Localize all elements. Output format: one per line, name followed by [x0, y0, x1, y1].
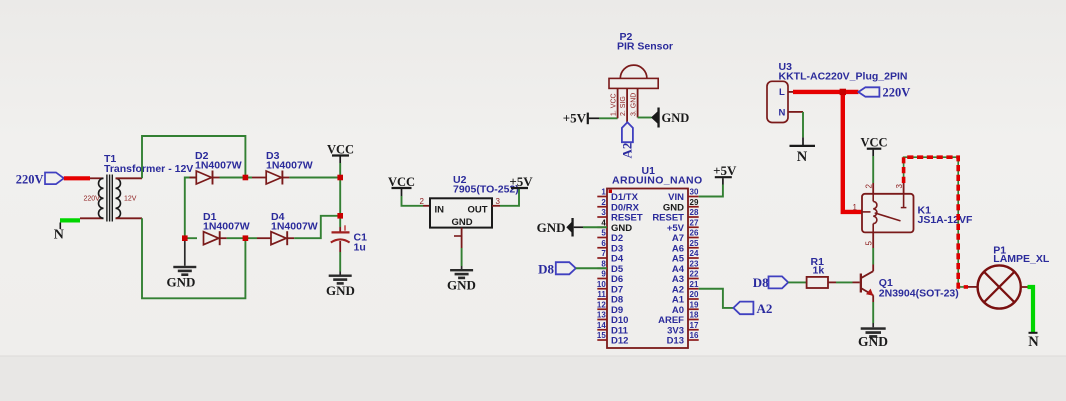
svg-text:VCC: VCC	[860, 136, 887, 150]
svg-text:27: 27	[690, 218, 699, 227]
pin 29 GND	[688, 206, 699, 208]
svg-text:N: N	[797, 149, 808, 165]
node N (left)	[54, 220, 80, 242]
svg-text:16: 16	[690, 331, 699, 340]
svg-text:25: 25	[690, 239, 699, 248]
svg-text:JS1A-12VF: JS1A-12VF	[918, 214, 973, 226]
svg-text:IN: IN	[435, 205, 445, 216]
svg-text:5: 5	[601, 229, 606, 238]
svg-text:GND: GND	[451, 217, 472, 228]
wire GND port to Arduino	[583, 226, 607, 228]
connector U3 KKTL-AC220V_Plug_2PIN	[767, 61, 907, 123]
port 220V (left)	[16, 172, 64, 186]
diode D2 1N4007W	[190, 150, 242, 185]
svg-text:11: 11	[597, 290, 606, 299]
junction node dots (bridge)	[243, 175, 249, 181]
svg-text:L: L	[779, 87, 785, 98]
pin 2 label (K1)	[865, 184, 874, 189]
wire U2 GND pin down	[461, 228, 463, 248]
pin 18 AREF	[688, 319, 699, 321]
pin 22 A3	[688, 278, 699, 280]
wire D1 cathode to junction	[227, 237, 257, 239]
capacitor C1 1u	[331, 225, 367, 253]
svg-text:1N4007W: 1N4007W	[271, 221, 318, 233]
wire lamp right pin	[1021, 286, 1028, 288]
wire relay pin3 stub	[903, 183, 905, 194]
svg-text:10: 10	[597, 280, 606, 289]
pin 25 A6	[688, 247, 699, 249]
svg-text:2: 2	[865, 184, 874, 189]
diode D3 1N4007W	[252, 150, 313, 185]
svg-text:GND: GND	[858, 334, 888, 349]
wire 220V thick red to transformer	[64, 176, 90, 180]
svg-text:A2: A2	[620, 143, 635, 159]
pin 30 VIN	[688, 196, 699, 198]
svg-text:+5V: +5V	[563, 111, 587, 126]
port 220V (right)	[858, 85, 910, 99]
svg-text:2: 2	[420, 197, 425, 206]
svg-text:GND: GND	[537, 220, 566, 235]
svg-text:ARDUINO_NANO: ARDUINO_NANO	[612, 175, 703, 187]
wire D8 port to Arduino	[576, 267, 607, 269]
svg-text:13: 13	[597, 311, 606, 320]
pin 14 D11	[597, 329, 607, 331]
svg-text:29: 29	[690, 198, 699, 207]
wire dashed highlighted net relay pin3 to lamp	[904, 157, 968, 287]
junction node (220V)	[840, 89, 846, 95]
pin 7 D4	[597, 257, 607, 259]
svg-text:N: N	[1028, 334, 1039, 350]
wire PIR pin3 to GND port	[638, 117, 652, 119]
PIR sensor P2	[609, 31, 673, 123]
wire pin stub T1 primary top	[90, 177, 104, 179]
svg-text:220V: 220V	[16, 172, 44, 186]
wire D2 cathode to junction	[220, 177, 253, 179]
pin 1 D1/TX	[597, 196, 607, 198]
svg-text:D8: D8	[538, 261, 554, 276]
svg-text:1u: 1u	[354, 242, 366, 254]
wire R1 to Q1 base	[828, 281, 836, 283]
node N (U3)	[790, 137, 816, 165]
svg-text:+5V: +5V	[509, 174, 533, 189]
svg-text:220V: 220V	[84, 196, 101, 203]
svg-text:GND: GND	[662, 111, 690, 125]
pin 2 D0/RX	[597, 206, 607, 208]
svg-text:D12: D12	[611, 336, 628, 347]
pin 23 A4	[688, 267, 699, 269]
svg-text:9: 9	[601, 270, 606, 279]
power flag +5V (Arduino VIN)	[713, 163, 737, 185]
svg-text:14: 14	[597, 321, 606, 330]
pin 13 D10	[597, 319, 607, 321]
pin 6 D3	[597, 247, 607, 249]
transformer T1	[84, 153, 194, 222]
pin 12 D9	[597, 308, 607, 310]
port GND (Arduino pin 4)	[537, 218, 583, 237]
pin 5 D2	[597, 237, 607, 239]
wire pin stub T1 primary bottom	[80, 217, 104, 219]
svg-text:2. SIG: 2. SIG	[620, 96, 627, 116]
svg-text:2: 2	[601, 198, 606, 207]
svg-text:1N4007W: 1N4007W	[203, 221, 250, 233]
svg-text:7: 7	[601, 249, 606, 258]
svg-text:12: 12	[597, 300, 606, 309]
svg-text:1: 1	[853, 203, 858, 212]
port D8 (R1)	[753, 275, 788, 290]
wire N pin down	[802, 112, 804, 137]
svg-text:1N4007W: 1N4007W	[266, 160, 313, 172]
op-amp U1 ARDUINO_NANO body	[597, 165, 703, 348]
pin 15 D12	[597, 339, 607, 341]
wire VCC column	[339, 163, 341, 227]
svg-text:3: 3	[601, 208, 606, 217]
svg-text:4: 4	[601, 218, 606, 227]
svg-text:23: 23	[690, 259, 699, 268]
svg-text:N: N	[54, 228, 64, 243]
wire Q1 emitter to ground	[872, 295, 874, 302]
wire D4 cathode elbow to VCC column	[294, 216, 340, 238]
svg-text:19: 19	[690, 300, 699, 309]
node N (lamp)	[1028, 287, 1040, 350]
transistor Q1 2N3904(SOT-23)	[860, 271, 959, 299]
svg-text:28: 28	[690, 208, 699, 217]
svg-text:OUT: OUT	[467, 205, 487, 216]
ground (Q1)	[858, 323, 888, 349]
svg-text:GND: GND	[447, 278, 476, 293]
svg-text:12V: 12V	[124, 196, 137, 203]
wire pin stub T1 secondary top	[116, 177, 143, 179]
pin 28 RESET	[688, 216, 699, 218]
relay K1 JS1A-12VF	[862, 194, 973, 233]
svg-text:1k: 1k	[813, 265, 825, 277]
pin 16 D13	[688, 339, 699, 341]
svg-text:17: 17	[690, 321, 699, 330]
power flag +5V (U2 output)	[509, 174, 533, 189]
ground (U2)	[447, 266, 476, 293]
svg-text:N: N	[779, 107, 786, 118]
svg-text:+5V: +5V	[713, 163, 737, 178]
pin 3 RESET	[597, 216, 607, 218]
svg-text:6: 6	[601, 239, 606, 248]
svg-text:A2: A2	[757, 301, 773, 316]
wire L pin stub	[788, 91, 794, 93]
svg-text:1: 1	[601, 188, 606, 197]
wire D8 port to R1	[788, 281, 806, 283]
pin 24 A5	[688, 257, 699, 259]
power flag VCC (relay)	[860, 136, 887, 157]
pin 10 D7	[597, 288, 607, 290]
wire secondary bottom rail to D1/D4 junction	[142, 218, 245, 298]
wire N pin stub	[788, 111, 803, 113]
power flag VCC (U2 input)	[388, 175, 415, 196]
svg-text:20: 20	[690, 290, 699, 299]
wire +5V to PIR pin1	[599, 117, 618, 119]
svg-text:GND: GND	[167, 275, 196, 290]
pin 26 A7	[688, 237, 699, 239]
wire +5V to VIN pin 30	[699, 185, 723, 197]
svg-text:3. GND: 3. GND	[631, 93, 638, 116]
svg-text:PIR Sensor: PIR Sensor	[617, 41, 673, 53]
pin 20 A1	[688, 298, 699, 300]
svg-text:30: 30	[690, 188, 699, 197]
pin 3 label (K1)	[895, 184, 904, 189]
svg-text:26: 26	[690, 229, 699, 238]
svg-text:8: 8	[601, 259, 606, 268]
ground (C1)	[326, 272, 355, 299]
wire thick red 220V net	[793, 90, 858, 94]
svg-text:22: 22	[690, 270, 699, 279]
pin 17 3V3	[688, 329, 699, 331]
wire VCC to relay pin 2	[872, 156, 874, 183]
pin 9 D6	[597, 278, 607, 280]
wire relay pin5 to Q1 collector	[872, 232, 874, 248]
pin 21 A2	[688, 288, 699, 290]
wire Arduino A2 pin 21 to A2 port	[699, 289, 734, 308]
svg-text:1. VCC: 1. VCC	[611, 93, 618, 116]
pin 11 D8	[597, 298, 607, 300]
svg-text:D13: D13	[667, 336, 684, 347]
svg-text:LAMPE_XL: LAMPE_XL	[993, 253, 1050, 265]
port A2 (PIR)	[620, 122, 635, 158]
svg-text:18: 18	[690, 311, 699, 320]
pin 5 label (K1)	[865, 241, 874, 246]
port D8 (Arduino pin 8)	[538, 261, 576, 276]
port A2 (right)	[733, 301, 772, 316]
svg-text:Transformer - 12V: Transformer - 12V	[104, 163, 193, 175]
diode D1 1N4007W	[203, 211, 250, 245]
svg-text:3: 3	[496, 197, 501, 206]
wire pin stub T1 secondary bottom	[116, 217, 143, 219]
diode D4 1N4007W	[257, 211, 318, 245]
wire secondary top rail to D2/D3 junction	[142, 136, 245, 178]
pin 19 A0	[688, 308, 699, 310]
power flag VCC (bridge)	[327, 143, 354, 164]
svg-text:1N4007W: 1N4007W	[195, 160, 242, 172]
lamp P1 LAMPE_XL	[968, 245, 1050, 309]
op-amp U2 7905(TO-252) regulator body	[430, 174, 519, 228]
port GND (PIR)	[651, 108, 689, 128]
pin 27 +5V	[688, 226, 699, 228]
svg-text:KKTL-AC220V_Plug_2PIN: KKTL-AC220V_Plug_2PIN	[779, 71, 908, 83]
svg-text:15: 15	[597, 331, 606, 340]
power flag +5V (PIR)	[563, 111, 599, 126]
svg-text:21: 21	[690, 280, 699, 289]
wire U2 out to +5V flag	[492, 205, 500, 207]
pin 4 GND	[597, 226, 607, 228]
resistor R1 1k	[807, 256, 828, 288]
svg-text:24: 24	[690, 249, 699, 258]
ground (bridge)	[167, 238, 197, 289]
svg-text:2N3904(SOT-23): 2N3904(SOT-23)	[879, 287, 959, 299]
svg-text:D8: D8	[753, 275, 769, 290]
pin 8 D5	[597, 267, 607, 269]
svg-text:220V: 220V	[883, 85, 911, 99]
wire C1 to ground	[339, 252, 341, 272]
wire VCC to U2 pin 2	[402, 196, 424, 206]
wire D3 cathode to VCC column	[289, 177, 340, 179]
wire D2 anode vertical to D1 anode	[185, 178, 197, 239]
svg-text:GND: GND	[326, 283, 355, 298]
